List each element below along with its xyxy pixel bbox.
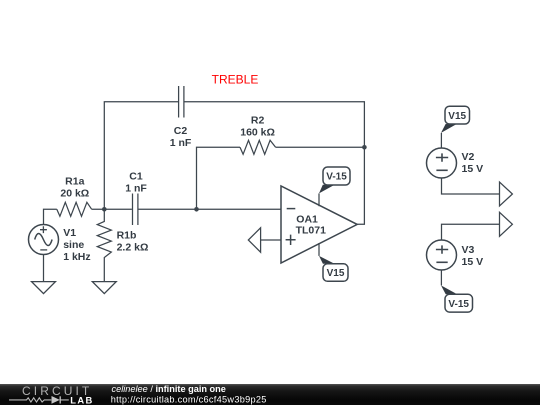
op-amp OA1 triangle xyxy=(281,186,357,263)
OA1 plus input mark xyxy=(286,235,296,245)
footer bar xyxy=(0,384,540,405)
net flag leader V-15 xyxy=(319,185,335,194)
svg-text:20 kΩ: 20 kΩ xyxy=(60,187,89,199)
ground right of V3 xyxy=(500,212,513,236)
resistor R1b xyxy=(97,209,111,281)
net flag box V15 (V2) xyxy=(445,106,470,124)
label C1 value xyxy=(125,171,147,195)
svg-text:V-15: V-15 xyxy=(326,172,347,183)
wire R2 feedback branch xyxy=(197,147,365,209)
svg-text:1 kHz: 1 kHz xyxy=(63,251,90,263)
capacitor C1 xyxy=(133,194,138,226)
svg-text:2.2 kΩ: 2.2 kΩ xyxy=(117,241,149,253)
resistor R1a xyxy=(57,202,92,216)
svg-text:celinelee / infinite gain one: celinelee / infinite gain one xyxy=(112,384,226,394)
ground under V1 xyxy=(32,282,56,294)
voltage source V2 xyxy=(427,148,457,178)
wire non-inverting input xyxy=(261,239,281,241)
wire main input row xyxy=(44,209,282,224)
wire V2 to ground xyxy=(442,178,500,194)
OA1 negative supply pin stub xyxy=(318,193,320,206)
label V1 value xyxy=(63,227,90,263)
label OA1 type xyxy=(296,214,327,237)
svg-text:TL071: TL071 xyxy=(296,225,327,237)
capacitor C2 xyxy=(179,86,184,118)
footer logo squiggle wire xyxy=(9,398,69,402)
svg-text:15 V: 15 V xyxy=(462,163,484,175)
net flag leader V-15 (V3) xyxy=(441,285,457,294)
wire V1 to ground xyxy=(43,255,45,282)
svg-text:V1: V1 xyxy=(63,227,76,239)
V1 plus mark xyxy=(40,226,47,233)
V1 sine mark xyxy=(35,234,52,246)
V3 plus mark xyxy=(436,245,448,253)
ground under R1b xyxy=(92,282,116,294)
svg-text:sine: sine xyxy=(63,239,84,251)
footer logo diode xyxy=(52,396,60,404)
svg-text:V15: V15 xyxy=(448,111,466,122)
svg-text:15 V: 15 V xyxy=(462,256,484,268)
wire V3 to ground xyxy=(442,224,500,240)
svg-text:LAB: LAB xyxy=(70,394,93,405)
voltage source V1 xyxy=(29,225,59,255)
svg-text:R2: R2 xyxy=(251,115,265,127)
svg-text:1 nF: 1 nF xyxy=(125,183,147,195)
node B junction dot (R2 branch) xyxy=(194,207,199,212)
label R1a value xyxy=(60,175,89,199)
label R2 value xyxy=(240,115,275,139)
net flag box V-15 (V3) xyxy=(445,294,473,312)
svg-text:C1: C1 xyxy=(129,171,143,183)
label R1b value xyxy=(117,229,149,253)
svg-text:C2: C2 xyxy=(174,125,188,137)
label V2 value xyxy=(462,151,484,175)
node A junction dot (R1a/R1b/C1/C2) xyxy=(102,207,107,212)
V3 minus mark xyxy=(436,261,447,263)
wire top feedback (C2 branch) xyxy=(104,102,364,225)
V2 minus mark xyxy=(436,169,447,171)
svg-text:http://circuitlab.com/c6cf45w3: http://circuitlab.com/c6cf45w3b9p25 xyxy=(111,394,267,404)
ground at non-inverting input xyxy=(248,228,260,252)
svg-text:V2: V2 xyxy=(462,151,475,163)
net flag box V-15 (op-amp) xyxy=(323,167,350,185)
V3 bottom stub xyxy=(440,270,442,285)
svg-text:V-15: V-15 xyxy=(448,299,469,310)
svg-text:V3: V3 xyxy=(462,244,475,256)
V2 plus mark xyxy=(436,153,448,161)
ground right of V2 xyxy=(500,182,513,206)
voltage source V3 xyxy=(427,240,457,270)
OA1 positive supply pin stub xyxy=(318,243,320,256)
net flag box V15 (op-amp) xyxy=(323,264,348,282)
node output junction dot (R2/output) xyxy=(362,145,367,150)
svg-text:160 kΩ: 160 kΩ xyxy=(240,127,275,139)
net flag leader V15 xyxy=(319,256,335,264)
label C2 value xyxy=(170,125,192,149)
label V3 value xyxy=(462,244,484,268)
V1 minus mark xyxy=(40,249,47,251)
svg-text:1 nF: 1 nF xyxy=(170,137,192,149)
svg-text:TREBLE: TREBLE xyxy=(212,73,259,87)
OA1 minus input mark xyxy=(287,208,296,210)
svg-text:R1a: R1a xyxy=(65,175,84,187)
net flag leader V15 (V2) xyxy=(441,124,457,133)
V2 top stub xyxy=(440,133,442,148)
svg-text:V15: V15 xyxy=(327,268,345,279)
resistor R2 xyxy=(240,140,276,154)
svg-text:R1b: R1b xyxy=(117,229,137,241)
